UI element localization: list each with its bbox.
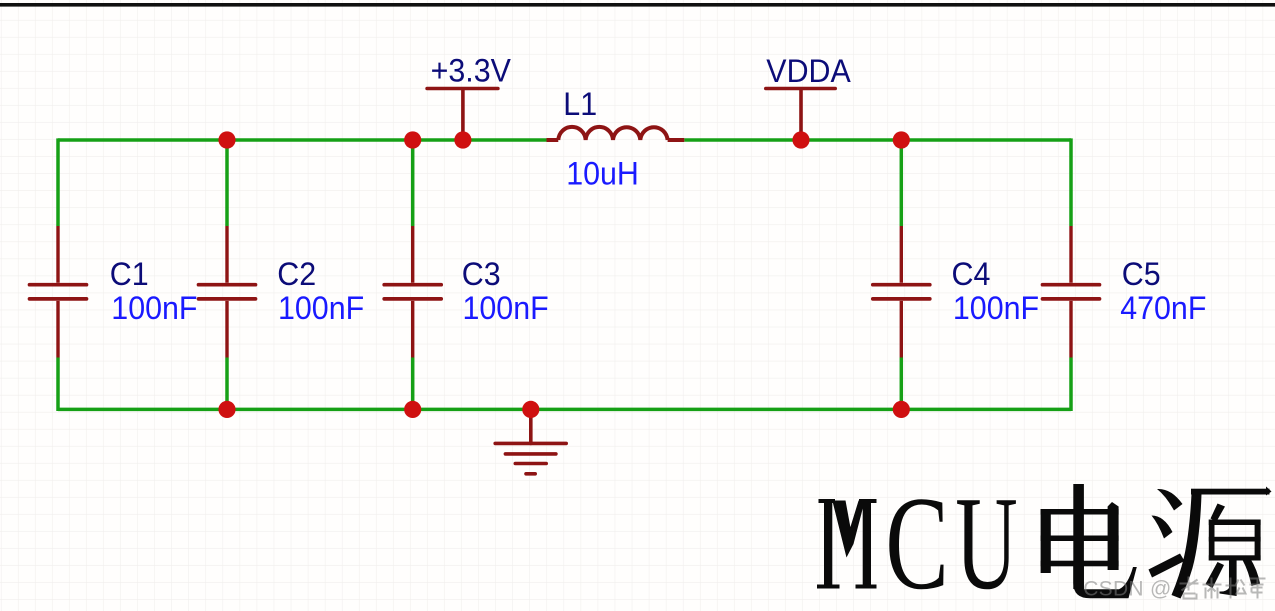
svg-text:VDDA: VDDA bbox=[766, 53, 851, 89]
svg-text:U: U bbox=[955, 470, 1017, 611]
svg-text:C5: C5 bbox=[1122, 256, 1161, 292]
svg-text:C3: C3 bbox=[462, 256, 501, 292]
svg-text:+3.3V: +3.3V bbox=[431, 53, 511, 89]
svg-text:470nF: 470nF bbox=[1120, 290, 1206, 326]
svg-text:L1: L1 bbox=[563, 86, 597, 122]
svg-text:CSDN @: CSDN @ bbox=[1083, 577, 1171, 600]
svg-text:100nF: 100nF bbox=[111, 290, 197, 326]
svg-text:10uH: 10uH bbox=[566, 156, 639, 192]
svg-text:C4: C4 bbox=[952, 256, 991, 292]
svg-text:100nF: 100nF bbox=[953, 290, 1039, 326]
svg-text:100nF: 100nF bbox=[463, 290, 549, 326]
svg-text:C1: C1 bbox=[110, 256, 149, 292]
svg-text:C: C bbox=[885, 469, 948, 611]
svg-text:100nF: 100nF bbox=[278, 290, 364, 326]
svg-text:C2: C2 bbox=[277, 256, 316, 292]
